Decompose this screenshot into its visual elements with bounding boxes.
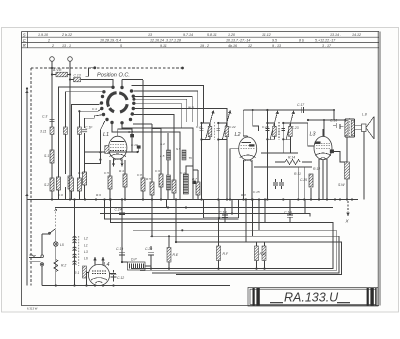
svg-text:C.6: C.6 — [58, 193, 63, 197]
svg-text:9.11: 9.11 — [160, 44, 167, 48]
svg-text:R.1: R.1 — [74, 271, 79, 275]
svg-text:S.W: S.W — [338, 183, 345, 187]
svg-text:10.28.19.-5.4: 10.28.19.-5.4 — [100, 39, 121, 43]
svg-text:C.12: C.12 — [117, 276, 124, 280]
svg-text:2 b.12: 2 b.12 — [61, 33, 72, 37]
svg-text:2: 2 — [51, 44, 54, 48]
svg-text:1.9.10: 1.9.10 — [38, 33, 48, 37]
svg-text:1.20: 1.20 — [228, 33, 235, 37]
svg-text:C.24: C.24 — [262, 125, 269, 129]
svg-text:C.9: C.9 — [155, 169, 160, 173]
svg-text:R.11: R.11 — [294, 172, 301, 176]
svg-text:R.14: R.14 — [288, 156, 295, 160]
svg-text:19 . 2: 19 . 2 — [200, 44, 209, 48]
svg-text:R.E: R.E — [173, 253, 179, 257]
svg-text:Th: Th — [189, 156, 193, 160]
svg-text:L.8: L.8 — [362, 113, 367, 117]
svg-text:5.+12.22.-17: 5.+12.22.-17 — [315, 39, 336, 43]
svg-text:5: 5 — [120, 44, 122, 48]
svg-text:R.8: R.8 — [241, 193, 246, 197]
svg-text:12: 12 — [248, 44, 252, 48]
svg-text:R.12: R.12 — [313, 167, 320, 171]
svg-text:12.16.24 .3.17.1.28: 12.16.24 .3.17.1.28 — [150, 39, 181, 43]
svg-text:L.7: L.7 — [159, 182, 164, 186]
svg-text:C.10: C.10 — [131, 143, 138, 147]
svg-text:R: R — [23, 43, 26, 48]
svg-text:C.19: C.19 — [116, 247, 123, 251]
svg-text:C.1D: C.1D — [284, 211, 292, 215]
svg-text:R.G: R.G — [260, 252, 266, 256]
svg-text:3 . 17: 3 . 17 — [322, 44, 332, 48]
svg-text:8 b: 8 b — [299, 39, 304, 43]
svg-text:C.25: C.25 — [300, 178, 307, 182]
svg-text:13 . 1: 13 . 1 — [62, 44, 71, 48]
svg-text:Position O.C.: Position O.C. — [97, 73, 130, 79]
svg-text:L1: L1 — [103, 132, 109, 138]
svg-text:C.16: C.16 — [330, 119, 337, 123]
svg-text:L2: L2 — [84, 237, 88, 241]
svg-text:L3: L3 — [310, 132, 316, 138]
svg-text:C.1B: C.1B — [219, 211, 227, 215]
svg-text:S.2: S.2 — [44, 183, 49, 187]
svg-text:13: 13 — [148, 33, 152, 37]
svg-text:C.20: C.20 — [145, 247, 152, 251]
svg-text:R.F: R.F — [223, 252, 229, 256]
svg-text:14.12: 14.12 — [352, 33, 361, 37]
svg-text:11.12: 11.12 — [262, 33, 271, 37]
svg-text:C.7: C.7 — [128, 130, 133, 134]
svg-text:C.15: C.15 — [253, 190, 260, 194]
svg-text:L2: L2 — [235, 132, 241, 138]
svg-text:D.P: D.P — [131, 258, 137, 262]
svg-text:3.11: 3.11 — [40, 130, 46, 134]
svg-text:C.23: C.23 — [292, 126, 299, 130]
svg-text:C.14: C.14 — [115, 208, 122, 212]
svg-text:C.1F: C.1F — [85, 126, 93, 130]
svg-text:C.5: C.5 — [104, 171, 109, 175]
svg-text:L4: L4 — [104, 262, 110, 268]
svg-text:C.3: C.3 — [42, 115, 47, 119]
svg-text:C.4: C.4 — [92, 107, 97, 111]
svg-text:9.5: 9.5 — [272, 39, 277, 43]
svg-text:A.V.B: A.V.B — [52, 68, 62, 72]
svg-text:6.313 W: 6.313 W — [27, 307, 38, 311]
svg-text:C.22: C.22 — [229, 125, 236, 129]
svg-text:R.4: R.4 — [119, 169, 124, 173]
svg-text:L5: L5 — [60, 243, 64, 247]
svg-text:S.4: S.4 — [160, 142, 165, 146]
svg-text:2: 2 — [47, 39, 50, 43]
svg-text:10.13.7.-27.-14: 10.13.7.-27.-14 — [226, 39, 250, 43]
svg-text:S.1: S.1 — [44, 154, 49, 158]
svg-text:9.7.14: 9.7.14 — [183, 33, 193, 37]
svg-text:L3: L3 — [84, 250, 88, 254]
svg-text:5.8.11: 5.8.11 — [207, 33, 217, 37]
svg-text:L1: L1 — [84, 244, 88, 248]
svg-text:9 . 13: 9 . 13 — [272, 44, 281, 48]
svg-text:C.11: C.11 — [180, 171, 187, 175]
svg-text:R.3: R.3 — [78, 171, 83, 175]
svg-text:R.9: R.9 — [96, 193, 101, 197]
svg-text:4b.16: 4b.16 — [228, 44, 237, 48]
svg-text:13.14 .: 13.14 . — [330, 33, 341, 37]
svg-text:C.8: C.8 — [137, 173, 142, 177]
svg-text:R.2: R.2 — [61, 264, 66, 268]
svg-text:C.13: C.13 — [74, 74, 81, 78]
svg-text:L6: L6 — [84, 257, 88, 261]
svg-text:S: S — [23, 32, 26, 37]
svg-text:C.21: C.21 — [196, 125, 203, 129]
svg-text:C.17: C.17 — [297, 103, 304, 107]
svg-text:RA.133.U: RA.133.U — [284, 291, 339, 305]
svg-text:L.5: L.5 — [160, 154, 165, 158]
svg-text:R.7: R.7 — [192, 177, 197, 181]
svg-text:R.5: R.5 — [146, 177, 151, 181]
svg-text:S.5: S.5 — [176, 147, 181, 151]
